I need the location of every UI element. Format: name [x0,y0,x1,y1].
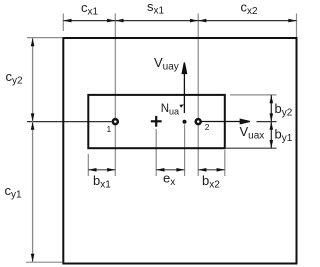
svg-text:1: 1 [107,124,112,134]
svg-text:2: 2 [205,122,210,132]
